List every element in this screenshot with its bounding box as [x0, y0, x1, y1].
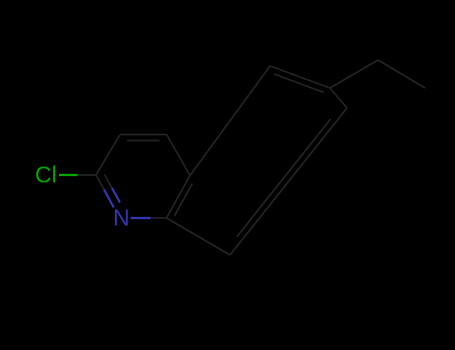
bond C2=N1 inner dark half	[105, 175, 113, 189]
bond C5-C6	[270, 66, 330, 88]
bond C4a=C8a inner	[175, 184, 193, 216]
dark carbon skeleton	[78, 60, 425, 255]
bond C3-C4	[120, 134, 167, 136]
bond C6-C7	[330, 88, 347, 108]
bond C2-C3	[96, 135, 120, 176]
bond N1-C8a dark half	[151, 217, 167, 219]
chain bond D1-D2	[378, 60, 425, 88]
bond C2=N1 outer blue half	[104, 190, 114, 208]
svg-text:Cl: Cl	[35, 162, 57, 188]
bond C2=N1 inner blue half	[112, 188, 120, 203]
bond C5=C6 inner	[274, 74, 324, 93]
blue nitrogen bonds	[104, 188, 151, 218]
bond C7=C8 inner	[237, 119, 331, 237]
svg-text:N: N	[113, 205, 130, 231]
bond C7-C8	[230, 108, 347, 255]
bond N1-C8a blue half	[131, 217, 151, 219]
bond C3=C4 inner	[127, 140, 160, 142]
chain bond C6-D1	[330, 60, 378, 88]
bond C2=N1 outer dark half	[96, 175, 104, 190]
green chlorine bond	[59, 174, 78, 176]
bond C4-C4a	[167, 135, 191, 176]
bond C4a-C8a fused	[167, 176, 191, 219]
bond Cl-C2 dark half	[78, 174, 96, 176]
bond C8-C8a	[167, 218, 231, 255]
big ring: bond C4a-C5	[190, 66, 270, 176]
bond Cl-C2 green half	[59, 174, 78, 176]
